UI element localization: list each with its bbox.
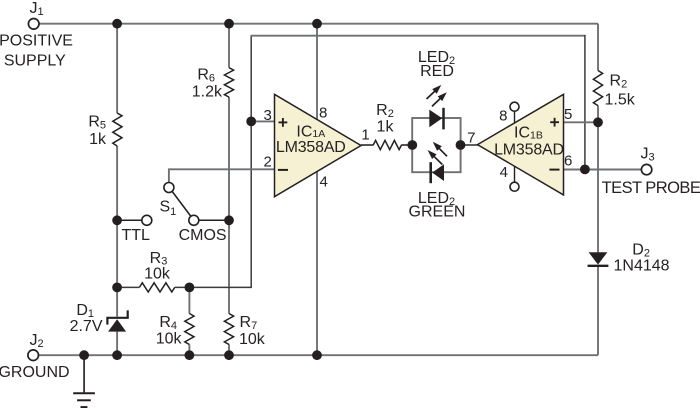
wire R2 to LED node [401, 144, 412, 146]
wire LED node to IC1B pin 7 [461, 144, 479, 146]
junction ground at D1 [112, 350, 122, 360]
svg-text:CMOS: CMOS [179, 227, 227, 244]
junction ground at pin 4 [312, 350, 322, 360]
wire R3 row to feedback rail [175, 286, 252, 288]
diode D2 triangle [589, 252, 608, 264]
svg-text:10k: 10k [239, 331, 266, 348]
junction top rail at R6 [224, 19, 234, 29]
svg-text:1: 1 [361, 127, 369, 144]
wire bottom ground rail [38, 354, 598, 356]
svg-text:10k: 10k [156, 331, 183, 348]
ground symbol [73, 392, 95, 394]
LED2 green arrow 1 [438, 147, 447, 156]
svg-text:POSITIVE: POSITIVE [0, 32, 73, 49]
wire R4 branch [188, 287, 190, 313]
wire feedback rail vertical left [250, 35, 252, 287]
connector J1 circle [28, 19, 39, 30]
svg-text:2.7V: 2.7V [70, 318, 103, 335]
wire feedback rail vertical right [584, 35, 586, 170]
wire IC1A output lead [361, 144, 373, 146]
junction ground at ground symbol [79, 350, 89, 360]
LED2 red arrow 1 [427, 90, 436, 99]
svg-text:8: 8 [319, 105, 327, 122]
wire R6-R7 branch [228, 97, 230, 313]
pin 8 B circle [510, 102, 519, 111]
svg-text:1k: 1k [377, 119, 395, 136]
wire R4 to ground rail [188, 345, 190, 356]
pin 4 B stem [514, 166, 516, 182]
resistor R6 [224, 68, 233, 98]
wire D2 upper lead [597, 122, 599, 252]
switch S1 pole circle [164, 183, 174, 193]
switch S1 arm [172, 191, 191, 216]
LED2 green cathode bar [429, 162, 432, 183]
wire IC1A pin 8 to supply [316, 24, 318, 120]
switch S1 TTL contact circle [142, 215, 152, 225]
zener D1 triangle [108, 319, 126, 331]
wire R5 branch lower [116, 146, 118, 317]
svg-text:RED: RED [420, 63, 454, 80]
svg-text:TTL: TTL [121, 227, 150, 244]
junction R3 right node [185, 283, 195, 293]
wire R2b top lead from supply [597, 24, 599, 71]
wire IC1B pin 5 stub [564, 121, 599, 123]
op-amp U1A triangle [275, 94, 362, 196]
resistor R3 [139, 283, 174, 292]
svg-text:1.2k: 1.2k [192, 83, 223, 100]
junction LED node right [456, 140, 466, 150]
wire IC1A pin 2 to switch pole [169, 169, 275, 183]
junction TTL node [112, 215, 122, 225]
svg-text:4: 4 [320, 174, 328, 191]
op-amp U1B plus sign [550, 121, 559, 123]
connector J3 circle [641, 164, 651, 174]
wire R6 branch upper [228, 24, 230, 68]
svg-text:6: 6 [564, 152, 572, 169]
junction pin 3 node [246, 117, 256, 127]
svg-text:5: 5 [564, 106, 572, 123]
wire node pin3 stub [251, 120, 274, 122]
resistor R4 [185, 314, 194, 345]
svg-text:2: 2 [264, 153, 272, 170]
LED2 red arrow 2 [432, 97, 441, 106]
pin 8 B stem [514, 111, 516, 123]
wire LED bridge frame [412, 118, 460, 172]
svg-text:TEST PROBE: TEST PROBE [602, 179, 700, 197]
LED2 green arrow 2 [433, 155, 442, 164]
svg-text:8: 8 [499, 108, 507, 125]
junction ground at R4 [185, 350, 195, 360]
wire feedback rail top horizontal [251, 35, 586, 37]
svg-text:1k: 1k [89, 131, 107, 148]
svg-text:7: 7 [467, 130, 475, 147]
junction ground at R7 [224, 350, 234, 360]
junction CMOS node [224, 215, 234, 225]
wire CMOS stub [199, 219, 229, 221]
resistor R2 1.5k [593, 71, 602, 106]
zener D1 cathode bar [107, 310, 127, 324]
pin 4 B circle [510, 182, 519, 191]
svg-text:4: 4 [500, 164, 508, 181]
wire R5 branch upper [116, 24, 118, 113]
LED2 red triangle [429, 110, 442, 128]
LED2 red cathode bar [442, 108, 445, 130]
resistor R2 1k [373, 140, 401, 149]
wire IC1B pin 6 to J3 [564, 169, 642, 171]
svg-text:1.5k: 1.5k [605, 92, 636, 109]
junction pin 5 node [593, 117, 603, 127]
svg-text:GROUND: GROUND [0, 364, 70, 381]
svg-text:SUPPLY: SUPPLY [4, 52, 66, 69]
wire IC1A pin 4 to ground [316, 172, 318, 356]
wire D2 to ground rail [597, 267, 599, 355]
resistor R5 [113, 113, 122, 146]
LED2 green triangle [432, 164, 444, 181]
wire R3 left lead [117, 286, 139, 288]
op-amp U1B minus sign [549, 169, 559, 171]
junction top rail at pin 8 [312, 19, 322, 29]
wire R2b bottom lead [597, 106, 599, 123]
svg-text:GREEN: GREEN [409, 204, 466, 221]
svg-text:LM358AD: LM358AD [276, 139, 346, 156]
op-amp U1B triangle [478, 94, 564, 195]
wire top positive-supply rail [39, 23, 598, 25]
svg-text:1N4148: 1N4148 [614, 258, 670, 275]
junction R3 left node [112, 283, 122, 293]
junction pin 6 node [580, 165, 590, 175]
junction LED node left [407, 140, 417, 150]
op-amp U1A plus sign [279, 121, 288, 123]
wire D1 to ground rail [116, 332, 118, 356]
switch S1 CMOS contact circle [189, 215, 199, 225]
junction top rail at R5 [112, 19, 122, 29]
wire ground stem [83, 355, 85, 392]
svg-text:10k: 10k [144, 266, 171, 283]
connector J2 circle [28, 350, 39, 361]
wire R7 to ground rail [228, 345, 230, 356]
wire TTL stub [117, 219, 142, 221]
resistor R7 [224, 314, 233, 345]
svg-text:3: 3 [264, 107, 272, 124]
svg-text:LM358AD: LM358AD [494, 142, 564, 159]
op-amp U1A minus sign [278, 169, 288, 171]
diode D2 cathode bar [588, 265, 609, 267]
